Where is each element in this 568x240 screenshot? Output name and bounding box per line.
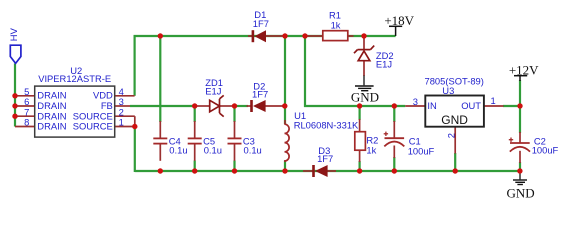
svg-text:GND: GND	[507, 185, 535, 200]
svg-text:RL0608N-331K: RL0608N-331K	[294, 120, 359, 131]
svg-text:VDD: VDD	[93, 90, 113, 101]
svg-text:1k: 1k	[331, 19, 341, 30]
svg-text:SOURCE: SOURCE	[73, 121, 113, 132]
svg-text:DRAIN: DRAIN	[37, 90, 66, 101]
svg-text:+12V: +12V	[509, 62, 539, 77]
svg-text:1F7: 1F7	[253, 18, 269, 29]
svg-text:2: 2	[445, 133, 456, 138]
svg-text:0.1u: 0.1u	[169, 145, 187, 156]
svg-text:GND: GND	[441, 113, 468, 127]
svg-text:E1J: E1J	[376, 58, 392, 69]
svg-text:E1J: E1J	[205, 85, 221, 96]
svg-text:GND: GND	[351, 89, 379, 104]
svg-text:OUT: OUT	[461, 100, 481, 111]
svg-text:100uF: 100uF	[408, 145, 435, 156]
svg-text:0.1u: 0.1u	[244, 145, 262, 156]
svg-text:1: 1	[491, 95, 496, 106]
svg-text:3: 3	[413, 96, 418, 107]
svg-text:DRAIN: DRAIN	[37, 100, 66, 111]
svg-text:HV: HV	[8, 27, 19, 41]
svg-text:1k: 1k	[366, 145, 376, 156]
svg-text:1F7: 1F7	[317, 153, 333, 164]
svg-text:1: 1	[119, 117, 124, 128]
svg-text:U3: U3	[442, 85, 454, 96]
svg-text:+18V: +18V	[384, 13, 414, 28]
svg-text:VIPER12ASTR-E: VIPER12ASTR-E	[38, 73, 111, 84]
svg-text:100uF: 100uF	[532, 145, 559, 156]
svg-text:FB: FB	[101, 100, 113, 111]
svg-text:DRAIN: DRAIN	[37, 121, 66, 132]
svg-text:IN: IN	[427, 100, 436, 111]
svg-text:0.1u: 0.1u	[204, 145, 222, 156]
svg-text:8: 8	[24, 117, 29, 128]
svg-text:1F7: 1F7	[252, 89, 268, 100]
